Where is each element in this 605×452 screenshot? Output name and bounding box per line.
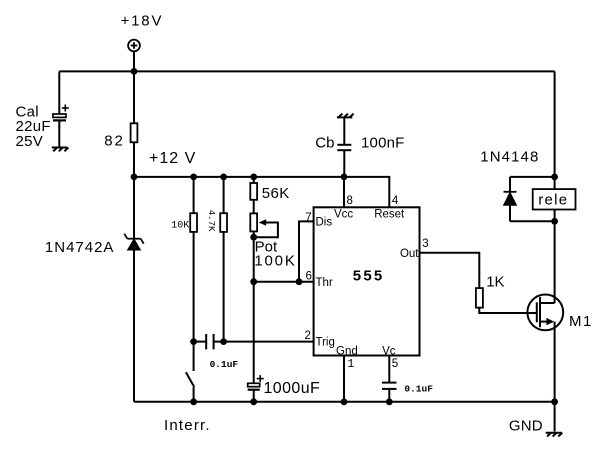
svg-text:2: 2 xyxy=(305,330,311,342)
svg-text:1: 1 xyxy=(347,358,354,371)
wire: switch bottom lead xyxy=(193,387,195,402)
wire: 4.7K top lead xyxy=(223,177,225,213)
wire: top rail xyxy=(59,70,554,72)
svg-text:Out: Out xyxy=(400,248,419,260)
node: 82/zener at +12V rail xyxy=(131,174,138,181)
svg-text:Trig: Trig xyxy=(316,337,335,349)
wire: bottom rail xyxy=(134,401,555,403)
wire: 82 resistor top lead xyxy=(133,71,135,123)
node: rele bottom xyxy=(551,218,558,225)
wire: diode branch top xyxy=(510,176,555,178)
svg-text:0.1uF: 0.1uF xyxy=(404,383,433,394)
svg-text:6: 6 xyxy=(306,271,312,283)
svg-text:Vc: Vc xyxy=(382,346,396,358)
svg-text:4: 4 xyxy=(392,195,399,207)
svg-text:82: 82 xyxy=(104,133,124,150)
svg-text:Thr: Thr xyxy=(316,277,333,289)
svg-text:M1: M1 xyxy=(569,313,593,330)
svg-text:56K: 56K xyxy=(262,185,290,202)
potentiometer wiper arrow xyxy=(259,219,267,226)
node: GND at bottom rail xyxy=(551,398,558,405)
wire: 10K bottom lead to Trig node xyxy=(193,232,195,342)
zener diode 1N4742A xyxy=(124,234,143,250)
resistor 10K xyxy=(190,213,197,232)
svg-text:Interr.: Interr. xyxy=(164,417,211,434)
capacitor 1000uF xyxy=(248,375,264,390)
wire: Trig line right of cap xyxy=(214,341,314,343)
wire: right rail top xyxy=(554,71,556,221)
svg-text:GND: GND xyxy=(509,417,543,434)
svg-text:Dis: Dis xyxy=(316,217,333,229)
wire: pin 5 Vc to cap xyxy=(388,356,390,383)
wire: Thr line xyxy=(254,281,314,283)
MOSFET source arrow xyxy=(546,318,554,325)
switch Interr. blade xyxy=(186,372,194,387)
transistor M1 (MOSFET) xyxy=(527,295,563,331)
wire: pot wiper xyxy=(254,223,278,238)
resistor 56K xyxy=(250,183,257,200)
capacitor Cal 22uF 25V xyxy=(53,105,69,121)
capacitor Cb 100nF xyxy=(337,145,351,150)
wire: zener top lead xyxy=(133,177,135,239)
relay box rele xyxy=(533,189,576,209)
ground (above Cb, flipped) xyxy=(337,114,354,118)
node: Trig at 10K xyxy=(190,338,197,345)
wire: 82 resistor bottom lead xyxy=(133,142,135,177)
svg-text:Reset: Reset xyxy=(374,209,405,221)
wire: 1K to gate xyxy=(479,308,537,313)
node: pin1 at bottom rail xyxy=(341,398,348,405)
wire: MOSFET source to bottom rail xyxy=(554,322,556,402)
wire: 56K top lead xyxy=(253,177,255,183)
svg-text:Gnd: Gnd xyxy=(336,346,358,358)
wire: Cb branch lower xyxy=(343,150,345,177)
wire: +18V terminal to top rail xyxy=(133,51,135,71)
svg-text:Cb: Cb xyxy=(315,134,334,151)
svg-text:0.1uF: 0.1uF xyxy=(210,359,239,370)
wire: 4.7K bottom lead to Trig node xyxy=(223,232,225,342)
wire: pin 1 Gnd to bottom rail xyxy=(343,356,345,402)
node: +18V at top rail xyxy=(131,68,138,75)
node: 56K at +12V rail xyxy=(250,174,257,181)
wire: Cb branch upper xyxy=(343,117,345,144)
node: Thr at pot branch xyxy=(250,278,257,285)
wire: Out pin to 1K xyxy=(420,253,480,288)
svg-text:7: 7 xyxy=(305,212,311,224)
wire: Cal branch down xyxy=(58,71,60,114)
node: switch at bottom rail xyxy=(190,398,197,405)
capacitor 0.1uF (pin 5) xyxy=(382,383,397,389)
svg-text:1K: 1K xyxy=(486,273,504,290)
wire: pot bottom to Thr node xyxy=(253,231,255,281)
svg-text:100K: 100K xyxy=(254,253,296,270)
wire: 0.1uF pin5 cap to bottom rail xyxy=(388,389,390,402)
svg-text:8: 8 xyxy=(347,195,353,207)
svg-text:5: 5 xyxy=(392,358,398,370)
svg-text:1N4742A: 1N4742A xyxy=(45,239,115,256)
svg-text:3: 3 xyxy=(422,238,428,250)
ground (below Cal) xyxy=(52,148,69,152)
svg-text:Vcc: Vcc xyxy=(334,209,353,221)
wire: Dis branch xyxy=(299,221,314,281)
wire: +12V rail xyxy=(134,177,389,207)
wire: Trig line left of cap xyxy=(194,341,207,343)
svg-text:1000uF: 1000uF xyxy=(264,380,321,397)
resistor 82 xyxy=(131,123,138,142)
wire: pin 8 Vcc to rail xyxy=(343,177,345,207)
op-amp/timer U1 555 box xyxy=(314,207,420,355)
wire: diode bottom lead xyxy=(509,205,511,221)
node: 1000uF at bottom rail xyxy=(250,398,257,405)
svg-text:4.7K: 4.7K xyxy=(206,210,216,232)
wire: right rail to MOSFET drain xyxy=(554,221,556,303)
svg-text:10K: 10K xyxy=(171,220,189,231)
power terminal +18V xyxy=(128,40,140,52)
wire: zener to bottom-left corner xyxy=(133,250,135,402)
wire: Cal cap to ground xyxy=(58,120,60,147)
node: pot wiper junction xyxy=(250,234,257,241)
ground GND (bottom right) xyxy=(546,433,563,437)
svg-text:+12 V: +12 V xyxy=(149,150,196,167)
svg-text:555: 555 xyxy=(353,267,385,284)
wire: diode top lead xyxy=(509,177,511,192)
resistor 4.7K xyxy=(220,213,227,232)
node: 4.7K at +12V rail xyxy=(220,174,227,181)
wire: switch top lead xyxy=(193,342,195,371)
svg-text:100nF: 100nF xyxy=(361,134,405,151)
svg-text:rele: rele xyxy=(538,192,568,209)
svg-text:1N4148: 1N4148 xyxy=(480,148,539,165)
wire: bottom rail to GND symbol xyxy=(554,402,556,432)
wire: 1000uF branch from Thr node xyxy=(253,282,255,384)
potentiometer Pot 100K body xyxy=(250,213,257,231)
wire: 56K to pot xyxy=(253,200,255,214)
wire: diode branch bottom xyxy=(510,220,555,222)
node: 0.1uF at bottom rail xyxy=(386,398,393,405)
node: 10K at +12V rail xyxy=(190,174,197,181)
node: Cb/Vcc at +12V rail xyxy=(341,174,348,181)
node: Thr at Dis branch xyxy=(296,278,303,285)
wire: 10K top lead xyxy=(193,177,195,213)
node: Trig at 4.7K xyxy=(220,338,227,345)
wire: 1000uF bottom lead xyxy=(253,390,255,402)
node: rele top xyxy=(551,174,558,181)
svg-text:25V: 25V xyxy=(16,133,44,150)
resistor 1K xyxy=(476,288,483,308)
svg-text:+18V: +18V xyxy=(121,13,164,30)
capacitor 0.1uF (Trig, horizontal) xyxy=(206,334,213,349)
diode 1N4148 xyxy=(504,192,517,205)
